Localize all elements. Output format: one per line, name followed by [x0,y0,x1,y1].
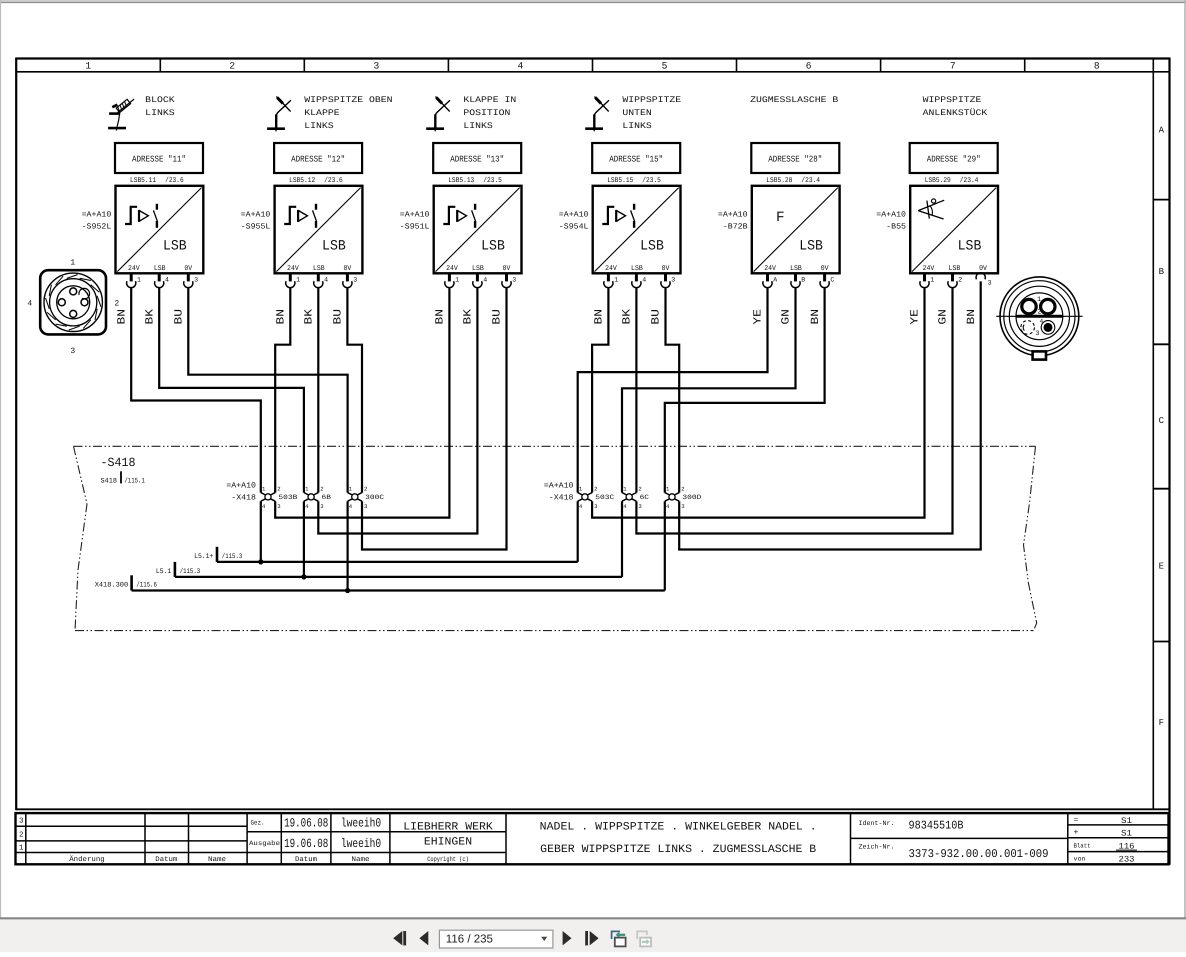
svg-text:X418.300: X418.300 [95,582,129,590]
svg-text:A: A [773,277,777,284]
svg-text:Datum: Datum [295,856,317,864]
svg-text:0V: 0V [662,265,670,273]
svg-text:2: 2 [320,485,323,492]
svg-text:Änderung: Änderung [69,855,105,864]
svg-text:3: 3 [353,277,357,284]
svg-text:BU: BU [492,309,504,325]
svg-text:0V: 0V [344,265,352,273]
svg-text:BLOCK: BLOCK [145,95,175,105]
svg-text:/23.4: /23.4 [960,176,979,185]
svg-text:2: 2 [19,831,24,840]
svg-text:19.06.08: 19.06.08 [284,817,328,831]
svg-text:+: + [1074,829,1079,838]
svg-text:ANLENKSTÜCK: ANLENKSTÜCK [923,108,989,118]
svg-text:LIEBHERR WERK: LIEBHERR WERK [403,822,493,834]
svg-text:-X418: -X418 [231,494,256,503]
svg-text:2: 2 [638,485,641,492]
svg-text:lweeih0: lweeih0 [341,837,381,851]
svg-text:1: 1 [85,60,91,71]
svg-text:WIPPSPITZE: WIPPSPITZE [622,95,681,105]
svg-text:3: 3 [638,503,641,510]
svg-text:lweeih0: lweeih0 [341,817,381,831]
svg-text:/115.3: /115.3 [180,567,201,576]
svg-text:/115.6: /115.6 [136,581,157,590]
svg-text:B: B [1159,267,1165,277]
svg-text:KLAPPE: KLAPPE [304,108,339,118]
svg-text:/23.5: /23.5 [642,176,661,185]
svg-text:3: 3 [70,347,75,356]
svg-text:2: 2 [958,277,962,284]
svg-text:Zeich-Nr.: Zeich-Nr. [859,843,895,850]
svg-text:C: C [1159,416,1165,426]
svg-text:2: 2 [364,485,367,492]
svg-text:2: 2 [1037,308,1041,316]
svg-text:2: 2 [114,300,119,309]
svg-text:3: 3 [320,503,323,510]
svg-text:24V: 24V [764,265,776,273]
svg-text:LSB: LSB [472,265,484,273]
svg-text:1: 1 [930,277,934,284]
svg-text:/23.6: /23.6 [324,176,343,185]
svg-text:LINKS: LINKS [304,121,333,131]
svg-text:Blatt: Blatt [1074,842,1091,849]
svg-text:=: = [1074,816,1079,825]
svg-text:LSB5.11: LSB5.11 [130,177,156,185]
svg-text:3: 3 [364,503,367,510]
svg-text:ADRESSE "13": ADRESSE "13" [450,154,504,164]
svg-text:0V: 0V [184,265,192,273]
svg-text:2: 2 [681,485,684,492]
svg-text:1: 1 [19,845,24,853]
svg-text:8: 8 [1094,60,1100,71]
svg-text:=A+A10: =A+A10 [226,482,256,491]
svg-text:BU: BU [651,309,663,325]
svg-text:3: 3 [512,277,516,284]
svg-text:3: 3 [277,503,280,510]
svg-text:BK: BK [144,309,156,325]
svg-text:1: 1 [614,277,618,284]
svg-text:EHINGEN: EHINGEN [424,836,472,848]
svg-text:6B: 6B [322,494,331,501]
svg-text:24V: 24V [446,265,458,273]
svg-text:300C: 300C [365,494,384,501]
svg-text:1: 1 [1037,296,1041,304]
svg-text:=A+A10: =A+A10 [400,210,430,219]
svg-text:19.06.08: 19.06.08 [284,837,328,851]
svg-text:F: F [1159,718,1164,728]
svg-text:4: 4 [518,60,524,71]
svg-text:LSB: LSB [163,239,187,255]
svg-text:L5.1+: L5.1+ [194,553,213,561]
svg-text:24V: 24V [128,265,140,273]
svg-text:LSB: LSB [640,239,664,255]
svg-text:=A+A10: =A+A10 [559,210,589,219]
svg-text:LSB: LSB [481,239,505,255]
svg-text:Gez.: Gez. [251,819,265,826]
svg-text:3: 3 [988,280,992,287]
svg-text:BK: BK [463,309,475,325]
svg-text:LSB: LSB [631,265,643,273]
svg-text:UNTEN: UNTEN [622,108,651,118]
svg-text:/23.4: /23.4 [801,176,820,185]
svg-text:B: B [801,277,805,284]
svg-text:6: 6 [806,60,812,71]
svg-text:Copyright (c): Copyright (c) [427,856,469,863]
svg-text:0V: 0V [503,265,511,273]
svg-text:BN: BN [116,309,128,325]
svg-text:0V: 0V [979,265,987,273]
svg-text:BU: BU [333,309,345,325]
svg-text:233: 233 [1119,854,1135,864]
svg-text:=A+A10: =A+A10 [82,210,112,219]
svg-text:98345510B: 98345510B [909,818,964,832]
svg-text:1: 1 [455,277,459,284]
svg-text:0V: 0V [821,265,829,273]
svg-text:503C: 503C [595,494,614,501]
svg-text:-S955L: -S955L [241,223,271,232]
svg-text:BN: BN [810,309,822,325]
svg-text:C: C [830,277,834,284]
svg-text:503B: 503B [278,494,297,501]
svg-text:LSB: LSB [799,239,823,255]
svg-text:NADEL . WIPPSPITZE . WINKELGEB: NADEL . WIPPSPITZE . WINKELGEBER NADEL . [540,822,817,834]
svg-text:5: 5 [662,60,668,71]
svg-text:7: 7 [950,60,956,71]
svg-text:/115.1: /115.1 [124,476,144,485]
svg-text:-B72B: -B72B [723,223,748,232]
svg-text:LSB5.28: LSB5.28 [766,177,792,185]
svg-text:=A+A10: =A+A10 [718,210,748,219]
svg-text:F: F [776,210,785,226]
svg-text:YE: YE [753,309,765,325]
svg-text:L5.1: L5.1 [156,568,171,576]
svg-text:LSB: LSB [322,239,346,255]
svg-text:ADRESSE "11": ADRESSE "11" [132,154,186,164]
svg-text:4: 4 [642,277,646,284]
svg-text:LSB5.15: LSB5.15 [607,177,633,185]
svg-text:/115.3: /115.3 [222,552,243,561]
svg-text:BU: BU [174,309,186,325]
svg-text:LSB: LSB [958,239,982,255]
svg-text:A: A [1159,126,1165,136]
svg-text:LINKS: LINKS [145,108,174,118]
svg-text:1: 1 [137,277,141,284]
svg-text:1: 1 [70,258,75,267]
svg-text:24V: 24V [287,265,299,273]
svg-text:LSB: LSB [790,265,802,273]
svg-text:4: 4 [165,277,169,284]
svg-text:-S952L: -S952L [82,223,112,232]
svg-text:Name: Name [208,856,226,864]
svg-text:3: 3 [671,277,675,284]
svg-text:=A+A10: =A+A10 [241,210,271,219]
svg-text:Name: Name [352,856,370,864]
svg-text:E: E [1159,562,1164,572]
svg-text:3: 3 [374,60,380,71]
svg-text:ADRESSE "15": ADRESSE "15" [609,154,663,164]
svg-text:GEBER WIPPSPITZE LINKS . ZUGME: GEBER WIPPSPITZE LINKS . ZUGMESSLASCHE B [540,844,816,856]
svg-text:2: 2 [229,60,235,71]
svg-text:GN: GN [781,309,793,325]
svg-text:4: 4 [324,277,328,284]
svg-text:300D: 300D [682,494,701,501]
svg-text:BN: BN [276,309,288,325]
svg-text:S1: S1 [1121,816,1132,826]
svg-text:=A+A10: =A+A10 [876,210,906,219]
svg-text:BK: BK [622,309,634,325]
svg-text:4: 4 [27,300,32,309]
svg-text:LSB: LSB [949,265,961,273]
svg-text:Datum: Datum [155,856,177,864]
svg-text:LSB: LSB [313,265,325,273]
svg-text:/23.5: /23.5 [483,176,502,185]
svg-text:WIPPSPITZE OBEN: WIPPSPITZE OBEN [304,95,392,105]
svg-text:BN: BN [966,309,978,325]
svg-text:POSITION: POSITION [463,108,510,118]
svg-text:LINKS: LINKS [622,121,651,131]
svg-text:3: 3 [1035,330,1039,338]
svg-text:von: von [1074,856,1086,863]
svg-text:2: 2 [277,485,280,492]
svg-text:6C: 6C [640,494,649,501]
svg-text:Ident-Nr.: Ident-Nr. [859,820,895,827]
svg-text:=A+A10: =A+A10 [544,482,574,491]
svg-text:3: 3 [681,503,684,510]
svg-text:-S951L: -S951L [400,223,430,232]
svg-text:BK: BK [304,309,316,325]
svg-text:LSB: LSB [154,265,166,273]
svg-text:4: 4 [483,277,487,284]
svg-text:ZUGMESSLASCHE B: ZUGMESSLASCHE B [750,95,838,105]
svg-text:BN: BN [435,309,447,325]
svg-text:3: 3 [194,277,198,284]
svg-text:GN: GN [938,309,950,325]
svg-text:ADRESSE "12": ADRESSE "12" [291,154,345,164]
svg-text:BN: BN [594,309,606,325]
svg-text:S1: S1 [1121,829,1132,839]
svg-text:/23.6: /23.6 [165,176,184,185]
svg-text:YE: YE [910,309,922,325]
svg-text:116 / 235: 116 / 235 [446,934,493,946]
svg-text:LSB5.29: LSB5.29 [925,177,951,185]
svg-text:Ausgabe: Ausgabe [249,840,280,847]
svg-text:ADRESSE "28": ADRESSE "28" [768,154,822,164]
svg-text:24V: 24V [605,265,617,273]
svg-text:3: 3 [594,503,597,510]
svg-text:24V: 24V [923,265,935,273]
svg-text:3373-932.00.00.001-009: 3373-932.00.00.001-009 [909,847,1049,861]
svg-text:LSB5.13: LSB5.13 [448,177,474,185]
svg-text:2: 2 [594,485,597,492]
svg-text:KLAPPE IN: KLAPPE IN [463,95,516,105]
svg-text:ADRESSE "29": ADRESSE "29" [927,154,981,164]
svg-text:3: 3 [19,817,24,826]
svg-text:S418: S418 [101,477,118,485]
svg-text:LINKS: LINKS [463,121,492,131]
svg-text:-B55: -B55 [886,223,906,232]
svg-text:LSB5.12: LSB5.12 [289,177,315,185]
svg-text:1: 1 [296,277,300,284]
svg-text:-S954L: -S954L [559,223,589,232]
svg-text:-X418: -X418 [549,494,574,503]
svg-text:-S418: -S418 [101,456,136,470]
svg-text:WIPPSPITZE: WIPPSPITZE [923,95,982,105]
svg-text:4: 4 [1040,318,1044,325]
